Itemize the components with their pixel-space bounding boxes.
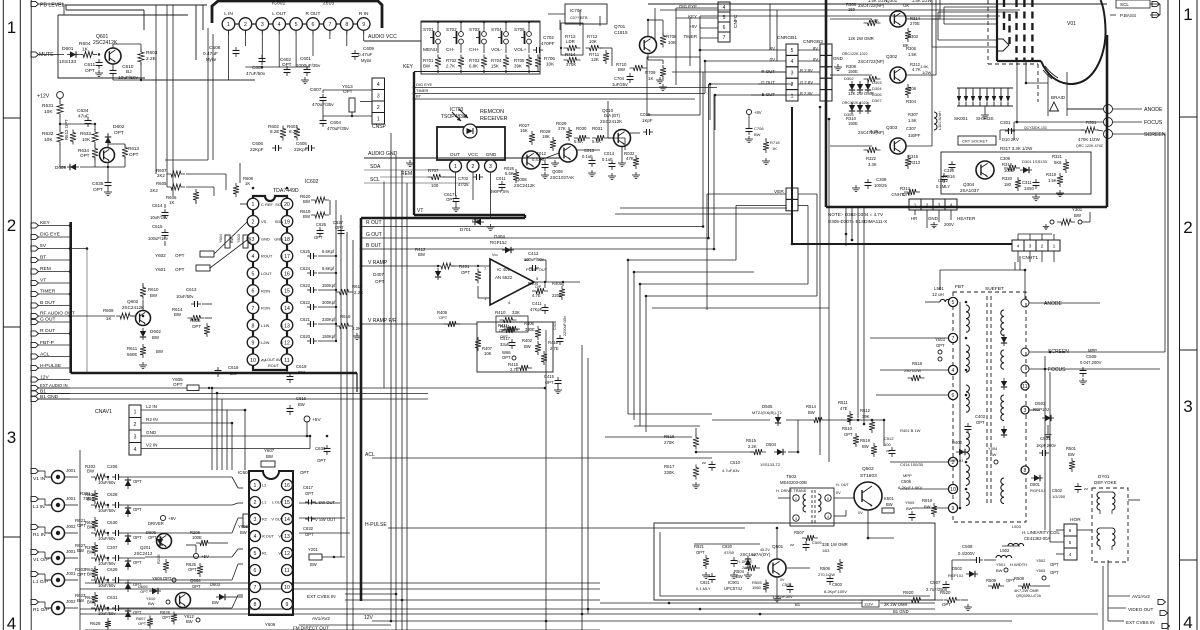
svg-text:R410: R410 bbox=[495, 310, 506, 315]
svg-text:OPT: OPT bbox=[114, 130, 124, 136]
svg-text:C310: C310 bbox=[944, 168, 955, 173]
svg-text:33E 1W OMR: 33E 1W OMR bbox=[822, 542, 848, 547]
svg-text:OPT: OPT bbox=[936, 343, 945, 348]
svg-text:OPT: OPT bbox=[77, 523, 86, 528]
diode bbox=[125, 508, 131, 514]
svg-text:5: 5 bbox=[254, 551, 257, 557]
svg-text:VS: VS bbox=[261, 219, 267, 224]
node SCREEN bbox=[1104, 130, 1113, 139]
IC602 pin 3 bbox=[247, 233, 259, 245]
svg-text:C625: C625 bbox=[300, 249, 311, 254]
svg-text:CNSP: CNSP bbox=[372, 124, 387, 130]
wire fbt left bbox=[870, 337, 949, 339]
svg-text:200V: 200V bbox=[944, 222, 954, 227]
wire av rows to ic603 bbox=[145, 476, 232, 478]
svg-text:2: 2 bbox=[926, 203, 929, 208]
vramp cluster box bbox=[477, 322, 553, 372]
svg-text:15: 15 bbox=[284, 500, 290, 506]
node B OUT bbox=[31, 303, 39, 308]
svg-text:SDA: SDA bbox=[275, 219, 284, 224]
CNFC-CNRGB cluster bbox=[746, 109, 751, 114]
svg-text:1: 1 bbox=[795, 497, 797, 501]
jack J002 bbox=[39, 601, 46, 603]
svg-text:6: 6 bbox=[723, 25, 726, 31]
svg-text:C621: C621 bbox=[300, 317, 311, 322]
svg-text:SDA: SDA bbox=[370, 164, 381, 170]
svg-text:1560: 1560 bbox=[752, 585, 762, 590]
svg-text:6.8K: 6.8K bbox=[469, 64, 478, 69]
svg-text:0.1,MLY: 0.1,MLY bbox=[696, 586, 711, 591]
wire 5V bbox=[70, 248, 87, 250]
svg-text:L502: L502 bbox=[1000, 548, 1010, 553]
svg-text:R629: R629 bbox=[90, 621, 101, 626]
wire ic702 bbox=[548, 13, 565, 15]
svg-text:330Kpf: 330Kpf bbox=[322, 317, 336, 322]
svg-text:OUT: OUT bbox=[450, 152, 460, 158]
wire bbox=[122, 607, 145, 609]
svg-text:3.3K: 3.3K bbox=[870, 129, 879, 134]
svg-text:9: 9 bbox=[952, 506, 955, 512]
svg-text:9: 9 bbox=[362, 22, 365, 28]
CRT V01 bbox=[996, 0, 998, 61]
svg-text:VOL-: VOL- bbox=[491, 47, 503, 53]
svg-text:C013: C013 bbox=[584, 148, 595, 153]
diode D602b bbox=[140, 331, 146, 337]
mute circuit box bbox=[58, 15, 145, 78]
svg-text:R520: R520 bbox=[940, 590, 951, 595]
yoke H coils bbox=[1097, 528, 1100, 546]
node VT bbox=[31, 280, 39, 285]
svg-text:R512: R512 bbox=[860, 408, 871, 413]
wire bbox=[65, 607, 79, 609]
svg-text:470PF: 470PF bbox=[541, 41, 555, 46]
svg-text:C312: C312 bbox=[938, 178, 949, 183]
svg-text:R507: R507 bbox=[794, 530, 805, 535]
svg-text:FM DIRECT OUT: FM DIRECT OUT bbox=[293, 626, 329, 630]
svg-text:3: 3 bbox=[134, 435, 137, 441]
svg-text:D501: D501 bbox=[1030, 482, 1041, 487]
svg-text:2: 2 bbox=[1041, 244, 1044, 249]
svg-text:IC901: IC901 bbox=[728, 580, 740, 585]
diode D701 bbox=[475, 219, 481, 225]
node MUTE bbox=[31, 52, 39, 57]
keypad resistor cluster R712 R713 bbox=[561, 23, 583, 55]
wire bbox=[39, 271, 71, 273]
svg-text:D302: D302 bbox=[844, 76, 854, 81]
svg-text:R921: R921 bbox=[694, 544, 705, 549]
svg-text:TSOP4838: TSOP4838 bbox=[441, 114, 466, 120]
diode bbox=[125, 583, 131, 589]
svg-text:BW: BW bbox=[418, 252, 426, 257]
svg-text:47E: 47E bbox=[840, 406, 848, 411]
svg-text:C609: C609 bbox=[363, 46, 374, 51]
transistor Q603 bbox=[100, 148, 115, 163]
node EXT AUDIO IN bbox=[31, 385, 39, 390]
CRT pin dashed lines bbox=[1015, 0, 1017, 61]
svg-text:RGP10J: RGP10J bbox=[1033, 407, 1049, 412]
svg-text:R510: R510 bbox=[842, 426, 853, 431]
svg-text:10uF/50v: 10uF/50v bbox=[98, 561, 116, 566]
wire cnrgb top drops bbox=[769, 4, 771, 50]
svg-text:C629: C629 bbox=[107, 567, 118, 572]
svg-text:10: 10 bbox=[950, 487, 956, 493]
svg-text:R511: R511 bbox=[838, 400, 848, 405]
box 113V bbox=[862, 600, 879, 607]
svg-text:+8V: +8V bbox=[754, 110, 762, 115]
diode bbox=[125, 480, 131, 486]
svg-text:GND: GND bbox=[486, 152, 497, 158]
svg-text:R313: R313 bbox=[910, 160, 921, 165]
svg-text:VOL+: VOL+ bbox=[514, 47, 527, 53]
node V1 O/P bbox=[31, 549, 39, 554]
IC602 pin 9 bbox=[247, 337, 259, 349]
svg-text:R708: R708 bbox=[666, 34, 677, 39]
svg-text:0.1MLY: 0.1MLY bbox=[936, 184, 950, 189]
svg-text:1: 1 bbox=[454, 164, 457, 170]
board outline right top thick bbox=[361, 217, 525, 220]
ground bbox=[107, 189, 109, 192]
svg-text:V OUT: V OUT bbox=[271, 518, 283, 522]
svg-text:OPT: OPT bbox=[129, 152, 139, 157]
wire bbox=[39, 315, 71, 317]
svg-text:GND: GND bbox=[928, 216, 938, 221]
wire bbox=[122, 557, 145, 559]
svg-text:R501: R501 bbox=[1066, 446, 1077, 451]
wire vertical bus left of IC602 bbox=[335, 200, 337, 341]
svg-text:C309: C309 bbox=[1000, 156, 1011, 161]
svg-text:D301 1SS133: D301 1SS133 bbox=[1022, 159, 1048, 164]
border frame left bbox=[2, 0, 4, 630]
capacitor C604 bbox=[322, 117, 324, 121]
svg-text:300Kpf: 300Kpf bbox=[322, 300, 336, 305]
node SCL top bbox=[1116, 0, 1150, 8]
svg-text:D404: D404 bbox=[494, 234, 505, 239]
svg-text:10uF/16v: 10uF/16v bbox=[150, 215, 168, 220]
svg-text:150Kpf: 150Kpf bbox=[322, 334, 336, 339]
svg-text:4: 4 bbox=[7, 614, 16, 630]
svg-text:Y603: Y603 bbox=[237, 234, 241, 243]
node V1 IN bbox=[31, 468, 39, 473]
wire EXT AUDIO IN line bbox=[39, 387, 188, 389]
svg-text:4: 4 bbox=[252, 254, 255, 260]
svg-text:OPT: OPT bbox=[375, 279, 385, 284]
svg-text:+5V: +5V bbox=[312, 417, 321, 423]
svg-text:CH-: CH- bbox=[446, 47, 455, 53]
node FOCUS fbt bbox=[1021, 365, 1029, 373]
svg-text:1.5KpF,50V: 1.5KpF,50V bbox=[772, 594, 793, 599]
svg-text:10: 10 bbox=[250, 358, 256, 364]
svg-text:4: 4 bbox=[278, 22, 281, 28]
wire bbox=[122, 579, 145, 581]
IC601 pin links bbox=[235, 23, 239, 25]
svg-text:2SA1037: 2SA1037 bbox=[960, 188, 979, 193]
svg-text:15K: 15K bbox=[520, 128, 528, 133]
svg-text:PB LEVEL: PB LEVEL bbox=[40, 3, 65, 9]
svg-text:C619: C619 bbox=[296, 364, 307, 369]
wire cnht1 bbox=[1017, 234, 1019, 240]
svg-text:R515: R515 bbox=[746, 438, 757, 443]
svg-text:KEY: KEY bbox=[403, 64, 414, 70]
jack J001 bbox=[39, 551, 46, 553]
wire bottom box borders bbox=[85, 582, 600, 584]
svg-text:BW: BW bbox=[310, 562, 317, 567]
svg-text:10uF/50v: 10uF/50v bbox=[98, 480, 116, 485]
svg-text:1.5K: 1.5K bbox=[908, 52, 917, 57]
svg-text:R605: R605 bbox=[156, 181, 167, 186]
wire focus screen feeds bbox=[1049, 372, 1051, 542]
IC603 pin 2 bbox=[250, 497, 261, 508]
svg-text:47/25: 47/25 bbox=[458, 182, 469, 187]
svg-text:2K2: 2K2 bbox=[157, 173, 165, 178]
IC602 pin 20 bbox=[281, 198, 293, 210]
svg-text:10uF/50v: 10uF/50v bbox=[176, 294, 194, 299]
svg-text:S704: S704 bbox=[491, 27, 502, 32]
wire top routing bbox=[65, 4, 207, 6]
wire bbox=[39, 393, 71, 395]
svg-text:OPT: OPT bbox=[976, 420, 985, 425]
svg-text:BW: BW bbox=[248, 236, 252, 243]
svg-text:H. OUT: H. OUT bbox=[836, 483, 850, 487]
svg-text:R1: R1 bbox=[262, 552, 267, 556]
svg-text:1: 1 bbox=[377, 116, 380, 122]
wire left top verticals bbox=[155, 5, 157, 174]
wire keypad right bbox=[540, 47, 567, 49]
wire crt socket drops bbox=[1016, 61, 1018, 122]
svg-text:NOTE:- D302-D304 = 4.7V: NOTE:- D302-D304 = 4.7V bbox=[828, 212, 884, 217]
svg-text:6: 6 bbox=[252, 289, 255, 295]
svg-text:12: 12 bbox=[284, 551, 290, 557]
board outline thick bbox=[71, 372, 357, 375]
svg-text:C702: C702 bbox=[543, 35, 554, 40]
svg-text:D601: D601 bbox=[62, 46, 74, 52]
border frame right bbox=[1167, 0, 1169, 630]
svg-text:J001: J001 bbox=[66, 468, 76, 473]
svg-text:OPT: OPT bbox=[175, 267, 185, 272]
svg-text:ORC122K-1022: ORC122K-1022 bbox=[842, 101, 868, 105]
wire ext cvbs bbox=[345, 593, 396, 595]
svg-text:REMCON: REMCON bbox=[480, 109, 504, 115]
svg-text:BW: BW bbox=[1068, 452, 1075, 457]
FBT pins bbox=[948, 297, 957, 306]
svg-text:BW: BW bbox=[1074, 213, 1082, 218]
svg-text:4: 4 bbox=[950, 203, 953, 208]
svg-text:2K 2W OMR: 2K 2W OMR bbox=[884, 602, 908, 607]
wire bus risers bbox=[599, 603, 601, 630]
svg-text:VT: VT bbox=[417, 208, 423, 214]
wire bbox=[65, 579, 79, 581]
IC602 pin 15 bbox=[281, 285, 293, 297]
wire staircase verticals bbox=[702, 72, 704, 227]
node L1 O/P bbox=[31, 571, 39, 576]
svg-text:10K: 10K bbox=[546, 62, 555, 67]
diode group D302-D307 bbox=[849, 84, 855, 90]
svg-text:FOCUS: FOCUS bbox=[1048, 367, 1066, 373]
svg-text:AV1/AV2: AV1/AV2 bbox=[312, 616, 330, 621]
resistor bbox=[864, 76, 881, 82]
thick KEY bus bbox=[413, 72, 415, 215]
box Q701 cluster bbox=[647, 57, 700, 115]
node ANODE bbox=[1104, 105, 1113, 114]
wire bbox=[39, 367, 71, 369]
svg-text:OPT: OPT bbox=[133, 560, 142, 565]
wire fbt top anode bbox=[940, 269, 1025, 271]
ground bbox=[1035, 194, 1037, 197]
svg-text:C311: C311 bbox=[1022, 180, 1032, 185]
svg-text:Y909: Y909 bbox=[905, 500, 915, 505]
svg-text:ANODE: ANODE bbox=[1144, 107, 1163, 113]
svg-text:2: 2 bbox=[254, 500, 257, 506]
ground bbox=[98, 70, 100, 73]
svg-text:OPT: OPT bbox=[188, 567, 197, 572]
svg-text:560E: 560E bbox=[127, 352, 137, 357]
svg-text:R315: R315 bbox=[908, 154, 919, 159]
svg-text:C631: C631 bbox=[107, 595, 118, 600]
svg-text:1.5K 1/2W: 1.5K 1/2W bbox=[912, 0, 932, 3]
svg-text:2SC2412K: 2SC2412K bbox=[93, 40, 118, 46]
svg-text:C502: C502 bbox=[1052, 488, 1063, 493]
svg-text:R401: R401 bbox=[459, 264, 470, 269]
svg-text:0.047,200V: 0.047,200V bbox=[1080, 360, 1102, 365]
svg-text:C920: C920 bbox=[722, 544, 733, 549]
svg-text:L1 IN: L1 IN bbox=[33, 504, 45, 510]
svg-text:R OUT: R OUT bbox=[262, 535, 274, 539]
svg-text:7: 7 bbox=[252, 306, 255, 312]
svg-text:DIG EYE: DIG EYE bbox=[416, 82, 433, 87]
svg-text:C630: C630 bbox=[107, 520, 118, 525]
svg-text:3: 3 bbox=[489, 164, 492, 170]
svg-text:10K: 10K bbox=[668, 40, 676, 45]
IC603 pin 4 bbox=[250, 531, 261, 542]
svg-text:8.2E: 8.2E bbox=[270, 129, 279, 134]
wire right column risers bbox=[1164, 134, 1166, 352]
svg-text:18: 18 bbox=[284, 237, 290, 243]
svg-text:BW: BW bbox=[808, 410, 815, 415]
svg-text:Q009: Q009 bbox=[552, 169, 563, 174]
svg-text:C411: C411 bbox=[532, 301, 542, 306]
wire right-of-ic603 verticals bbox=[545, 330, 547, 630]
svg-text:1: 1 bbox=[134, 410, 137, 416]
svg-text:12 uH: 12 uH bbox=[932, 292, 944, 297]
svg-text:R519: R519 bbox=[860, 438, 871, 443]
svg-text:BT: BT bbox=[416, 94, 422, 99]
svg-text:2: 2 bbox=[1183, 218, 1192, 237]
wire bbox=[39, 398, 71, 400]
svg-text:MPP: MPP bbox=[1088, 348, 1097, 353]
svg-text:EXT CVBS IN: EXT CVBS IN bbox=[1126, 620, 1155, 625]
svg-text:BW: BW bbox=[77, 598, 85, 603]
svg-text:ANODE: ANODE bbox=[1044, 301, 1062, 307]
IC602 pin 14 bbox=[281, 302, 293, 314]
wire bbox=[483, 70, 485, 72]
svg-text:2.7E: 2.7E bbox=[550, 346, 559, 351]
svg-text:27K: 27K bbox=[558, 126, 566, 131]
node L1 IN bbox=[31, 496, 39, 501]
svg-text:1K: 1K bbox=[245, 181, 250, 186]
svg-text:zz: zz bbox=[886, 448, 890, 453]
svg-text:100uF/50v: 100uF/50v bbox=[524, 257, 545, 262]
wire t502 bbox=[834, 497, 854, 499]
IC603 pin 12 bbox=[282, 548, 293, 559]
wire heater horizontals bbox=[846, 233, 1018, 235]
svg-text:C1815: C1815 bbox=[614, 30, 628, 35]
svg-text:C606: C606 bbox=[252, 141, 263, 146]
wire bbox=[65, 476, 79, 478]
svg-text:V2: V2 bbox=[278, 535, 283, 539]
svg-text:180: 180 bbox=[1004, 182, 1012, 187]
svg-text:7: 7 bbox=[952, 336, 955, 342]
svg-text:R IN: R IN bbox=[359, 11, 369, 17]
svg-text:C620: C620 bbox=[300, 334, 311, 339]
svg-text:Y602: Y602 bbox=[155, 253, 166, 258]
svg-text:47/50: 47/50 bbox=[724, 550, 735, 555]
svg-text:C613: C613 bbox=[186, 287, 197, 292]
svg-text:Y301: Y301 bbox=[1072, 207, 1083, 212]
svg-text:CNRGB1: CNRGB1 bbox=[777, 35, 797, 41]
svg-text:7: 7 bbox=[254, 585, 257, 591]
svg-text:BRAID: BRAID bbox=[1051, 95, 1066, 100]
svg-text:3: 3 bbox=[791, 71, 794, 77]
svg-text:REM: REM bbox=[401, 171, 412, 177]
wire cnsp bbox=[322, 90, 324, 93]
svg-text:C REF: C REF bbox=[261, 202, 274, 207]
svg-text:EXT AUDIO IN: EXT AUDIO IN bbox=[40, 383, 68, 388]
spark gap SK001 bbox=[957, 87, 1013, 89]
CRT dashed socket boundary bbox=[987, 0, 989, 64]
wire bbox=[455, 172, 457, 196]
svg-text:6: 6 bbox=[312, 22, 315, 28]
ground bbox=[967, 604, 969, 607]
IC603 pin 7 bbox=[250, 582, 261, 593]
CRT gun wedge bbox=[997, 39, 1009, 51]
svg-text:DY01: DY01 bbox=[1098, 474, 1110, 479]
node ACL bbox=[31, 354, 39, 359]
svg-text:10K: 10K bbox=[44, 109, 53, 115]
resistor R703 bbox=[481, 55, 487, 70]
svg-text:BW: BW bbox=[423, 64, 431, 69]
IC603 pin 14 bbox=[282, 514, 293, 525]
svg-text:IC602: IC602 bbox=[305, 179, 319, 185]
svg-text:R304: R304 bbox=[906, 99, 917, 104]
svg-text:CNHT2: CNHT2 bbox=[891, 192, 906, 197]
wire ic603 bbox=[299, 502, 340, 504]
wire staircase bundle turns bbox=[628, 413, 712, 415]
wire bbox=[122, 476, 145, 478]
node 5V bbox=[31, 246, 39, 251]
svg-text:IC 401: IC 401 bbox=[497, 267, 510, 272]
svg-text:zz: zz bbox=[702, 460, 706, 465]
svg-text:R718: R718 bbox=[770, 140, 780, 145]
wire bbox=[65, 532, 79, 534]
svg-text:LDR: LDR bbox=[566, 39, 575, 44]
svg-text:BW: BW bbox=[174, 312, 182, 317]
svg-text:1.5K: 1.5K bbox=[908, 118, 917, 123]
jack J001 bbox=[39, 573, 46, 575]
svg-text:+5V: +5V bbox=[201, 554, 209, 559]
svg-text:2K2: 2K2 bbox=[150, 188, 158, 193]
svg-text:5: 5 bbox=[827, 497, 829, 501]
svg-text:1: 1 bbox=[1183, 5, 1192, 24]
wires ic602 left bbox=[186, 173, 226, 175]
svg-text:B OUT: B OUT bbox=[366, 243, 381, 249]
wire keypad drop bbox=[383, 182, 385, 389]
svg-text:1K: 1K bbox=[169, 200, 174, 205]
IC702 box bbox=[565, 4, 607, 24]
svg-text:4: 4 bbox=[1069, 552, 1072, 557]
svg-text:11: 11 bbox=[284, 568, 289, 574]
wire bbox=[186, 544, 196, 546]
power board outline bbox=[654, 523, 935, 600]
svg-text:C626: C626 bbox=[316, 222, 327, 227]
